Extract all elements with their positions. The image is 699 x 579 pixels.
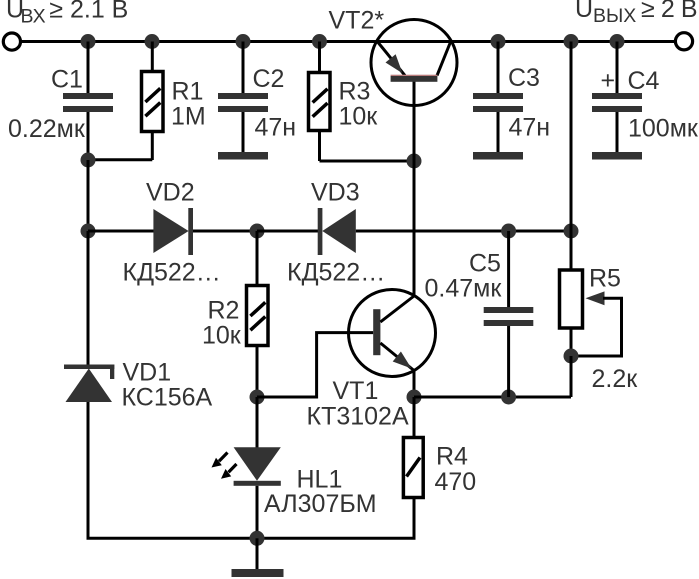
LED HL1: [234, 397, 377, 538]
svg-text:47н: 47н: [255, 114, 297, 142]
svg-text:VD3: VD3: [311, 178, 360, 206]
svg-text:+: +: [601, 67, 616, 95]
node dot VD2/VD3 junction: [250, 224, 265, 239]
ground bar under C4: [592, 152, 642, 160]
capacitor C3: [473, 42, 550, 153]
transistor VT1: [307, 290, 436, 431]
diode VD2: [123, 178, 221, 286]
svg-text:КД522…: КД522…: [287, 258, 385, 286]
svg-text:КД522…: КД522…: [123, 258, 221, 286]
output terminal: [675, 33, 692, 50]
resistor R5 (trimmer): [560, 231, 639, 393]
wire mid node to VD3: [257, 230, 318, 233]
svg-text:C2: C2: [253, 65, 285, 93]
svg-text:≥ 2.1 В: ≥ 2.1 В: [49, 0, 128, 24]
node dot top rail x152: [145, 34, 160, 49]
wire top rail down to R5 rail: [570, 42, 573, 232]
node U_BYX output label: [575, 0, 697, 27]
wire VT1 emitter down: [413, 371, 416, 398]
capacitor C1: [8, 42, 113, 161]
svg-text:C4: C4: [628, 67, 660, 95]
svg-text:R2: R2: [208, 297, 240, 325]
ground: [232, 538, 284, 577]
capacitor C4: [592, 42, 699, 153]
wire top rail: [21, 40, 676, 43]
node dot R5 bottom: [564, 349, 579, 364]
resistor R4: [403, 397, 476, 538]
svg-text:≥ 2 В: ≥ 2 В: [641, 0, 697, 23]
zener diode VD1: [64, 231, 213, 538]
node dot top rail x88: [81, 34, 96, 49]
svg-text:10к: 10к: [202, 322, 242, 350]
node dot top rail x617: [610, 34, 625, 49]
wire VD2 to mid node: [193, 230, 257, 233]
svg-text:C5: C5: [469, 249, 501, 277]
ground bar under C3: [473, 152, 523, 160]
node dot R3/VT2-base junction: [407, 154, 422, 169]
transistor VT2: [329, 7, 458, 162]
svg-text:C3: C3: [508, 64, 540, 92]
svg-text:КТ3102А: КТ3102А: [307, 402, 409, 430]
svg-text:U: U: [575, 0, 593, 23]
node dot bottom rail / ground: [250, 531, 265, 546]
svg-text:АЛ307БМ: АЛ307БМ: [264, 490, 377, 518]
svg-text:10к: 10к: [339, 102, 379, 130]
svg-text:R1: R1: [172, 77, 204, 105]
wiper of R5: [571, 291, 622, 356]
node dot top rail x498: [491, 34, 506, 49]
svg-text:R4: R4: [436, 443, 468, 471]
resistor R1: [142, 42, 206, 161]
node dot top rail x319: [312, 34, 327, 49]
node dot diode row / R5 rail: [564, 224, 579, 239]
wire emitter row y397: [414, 396, 571, 399]
node dot C5 bottom: [501, 390, 516, 405]
wire VT1 base path: [257, 333, 373, 397]
node dot VT1 emitter junction: [407, 390, 422, 405]
svg-text:VD1: VD1: [123, 359, 172, 387]
svg-text:1M: 1M: [171, 102, 206, 130]
node dot R2 bottom / VT1 base / HL1: [250, 390, 265, 405]
svg-text:47н: 47н: [509, 113, 551, 141]
wire diode row right segment: [356, 230, 571, 233]
svg-text:0.47мк: 0.47мк: [425, 274, 503, 302]
ground bar under C2: [218, 152, 268, 160]
wire VT2 base down to VT1 collector: [413, 161, 416, 296]
node U_BX input label: [6, 0, 128, 27]
svg-text:100мк: 100мк: [628, 115, 699, 143]
input terminal: [3, 33, 20, 50]
capacitor C5: [425, 231, 534, 397]
node dot top rail x571: [564, 34, 579, 49]
wire R1 bottom to C1 bottom: [88, 158, 152, 161]
node dot left rail / diode row: [81, 224, 96, 239]
diode VD3: [287, 178, 385, 286]
svg-text:0.22мк: 0.22мк: [8, 115, 86, 143]
wire left rail C1 to diode row: [87, 160, 90, 231]
capacitor C2: [218, 42, 296, 153]
wire diode row left segment: [88, 230, 154, 233]
svg-text:R3: R3: [339, 77, 371, 105]
wire bottom rail: [87, 537, 416, 540]
svg-text:VD2: VD2: [146, 178, 195, 206]
svg-text:ВХ: ВХ: [21, 5, 46, 27]
svg-text:VT2*: VT2*: [329, 7, 385, 35]
node dot C1/R1 junction: [81, 153, 96, 168]
node dot top rail x243: [236, 34, 251, 49]
svg-text:ВЫХ: ВЫХ: [593, 5, 636, 27]
svg-text:R5: R5: [589, 264, 621, 292]
svg-text:КС156А: КС156А: [122, 383, 213, 411]
node dot C5 top: [501, 224, 516, 239]
svg-text:2.2к: 2.2к: [592, 365, 639, 393]
wire R3 bottom to VT2 base: [320, 160, 415, 163]
svg-text:C1: C1: [51, 66, 83, 94]
light arrows of HL1: [212, 453, 237, 479]
svg-text:VT1: VT1: [333, 377, 379, 405]
resistor R3: [309, 42, 379, 162]
wire R5 bottom to emitter row: [570, 356, 573, 397]
resistor R2: [202, 231, 268, 397]
svg-text:470: 470: [435, 468, 477, 496]
